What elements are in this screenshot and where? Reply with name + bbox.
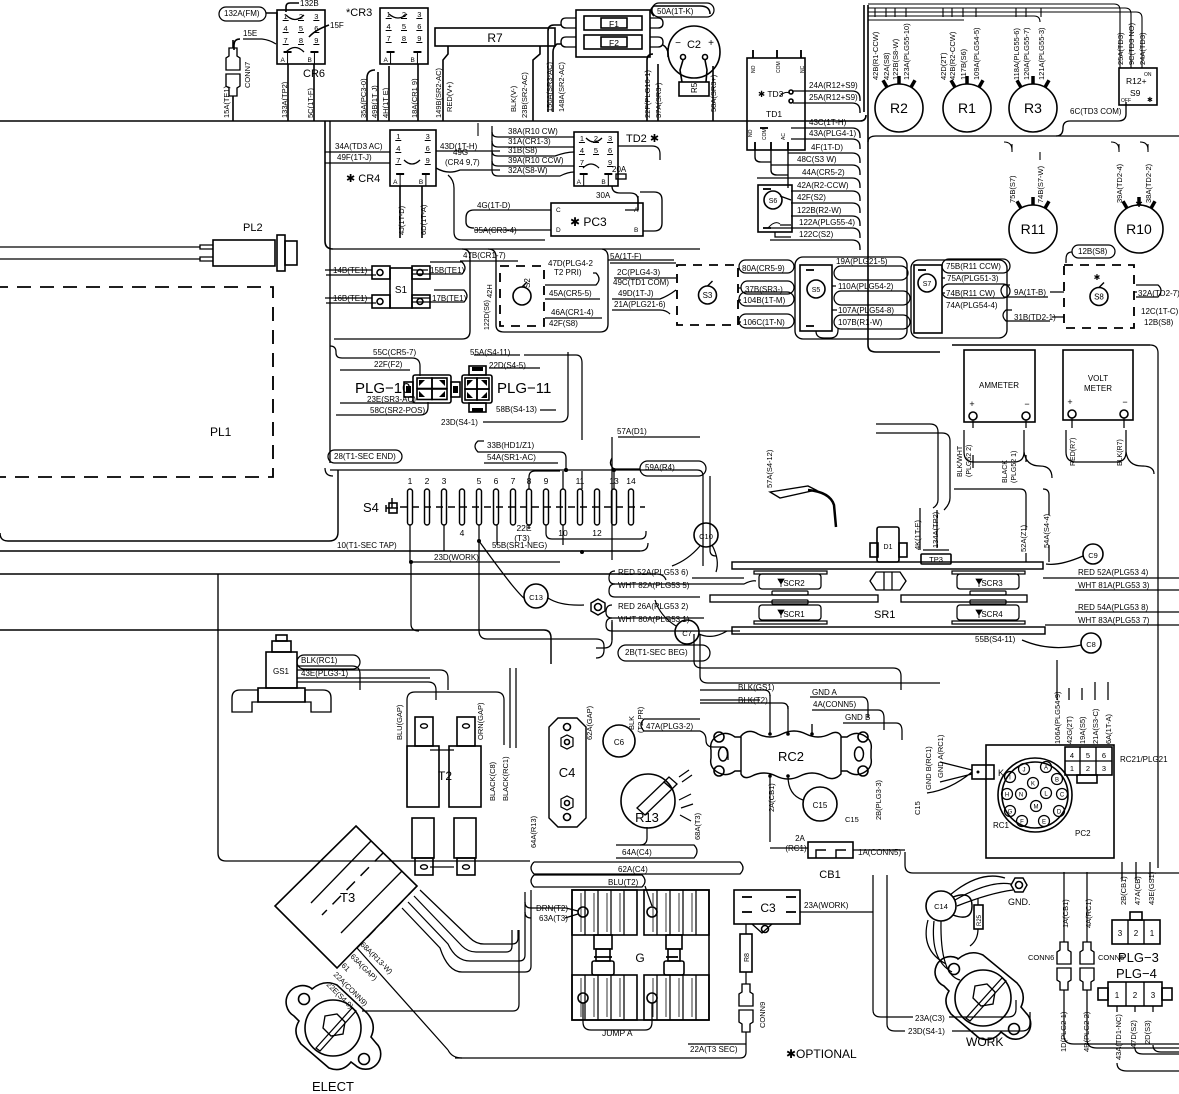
svg-text:S3: S3 [703,291,713,300]
svg-text:BLK: BLK [627,716,636,730]
capsule S3 left labels [610,262,676,264]
svg-text:9: 9 [417,34,421,43]
svg-text:R10: R10 [1126,221,1152,237]
svg-text:42B(R1-CCW): 42B(R1-CCW) [871,31,880,80]
wires meter leads [973,420,1026,468]
svg-text:+: + [969,399,974,409]
relay CR6 contact arcs [286,15,304,20]
svg-text:✱: ✱ [1094,273,1101,282]
svg-text:NO: NO [748,129,754,137]
T2 bundle outline [407,692,504,790]
wire C7 leads [699,631,727,636]
svg-text:5: 5 [402,22,406,31]
wire CR6 B to bus [313,64,315,121]
svg-text:49G: 49G [453,148,468,157]
svg-text:R2: R2 [890,100,908,116]
wires S7 [942,277,945,279]
wires above PLG-3 [1121,862,1123,880]
svg-text:2C(PLG4-3): 2C(PLG4-3) [617,268,660,277]
wire PLG region outline [325,455,333,463]
wire 55A to S4 [524,355,582,440]
svg-text:8: 8 [402,34,406,43]
svg-text:G: G [635,951,644,965]
svg-text:4: 4 [396,144,400,153]
svg-text:4: 4 [580,146,584,155]
svg-text:6D(1T-A): 6D(1T-A) [419,204,428,235]
transformer T2 [415,717,433,746]
svg-text:55A(S4-11): 55A(S4-11) [470,348,511,357]
wire right edge trunk [1157,353,1159,868]
relay TD2 contact arcs [586,138,602,142]
svg-text:R8: R8 [744,953,751,962]
svg-text:H: H [1005,793,1009,799]
svg-text:133A(TP2): 133A(TP2) [280,81,289,118]
svg-text:15A(TE1): 15A(TE1) [222,85,231,118]
svg-text:42G(2T): 42G(2T) [1065,716,1074,744]
wires T3 to bundle [408,892,525,961]
switch S1 [390,268,412,308]
wire 48C(S3 W) [771,165,860,175]
wire S2 region right border [488,249,608,332]
svg-text:PLG−3: PLG−3 [1118,950,1159,965]
svg-text:D: D [556,227,561,234]
S4 contact 1 [408,489,413,525]
resistor R25 [974,905,983,929]
svg-text:T2: T2 [438,769,452,783]
wire R12 to bus [1056,102,1126,136]
svg-text:21A(S3-C): 21A(S3-C) [1091,708,1100,744]
transformer T3 [275,826,417,968]
relay CR4 [390,130,436,186]
switch S2 [500,266,544,326]
svg-text:GS1: GS1 [273,667,290,676]
svg-text:123A(PLG55-10): 123A(PLG55-10) [902,23,911,80]
svg-text:20A: 20A [612,165,627,174]
svg-text:4G(1T-D): 4G(1T-D) [477,201,511,210]
svg-text:58C(SR2-POS): 58C(SR2-POS) [370,406,425,415]
wires S5 [832,285,836,287]
TD3 pins top [752,50,754,58]
svg-text:A: A [393,179,398,186]
capacitor C3 [734,890,800,924]
wires above rheostats [874,8,876,17]
svg-text:19A(PLG21-5): 19A(PLG21-5) [836,257,888,266]
svg-text:12C(1T-C): 12C(1T-C) [1141,307,1179,316]
wires SR1 left [609,571,756,584]
wire ELECT to bundle [362,930,519,1011]
test point TP3 [921,554,951,564]
svg-text:(CR4 9,7): (CR4 9,7) [445,158,480,167]
svg-text:42A(S8): 42A(S8) [882,52,891,80]
SCR4 [970,600,1006,604]
wire CR6 A to bus [287,64,289,121]
svg-text:4A(RC1): 4A(RC1) [1084,898,1093,928]
svg-text:5: 5 [1086,751,1090,760]
wire S4 region border [0,470,338,541]
timer TD2 [574,132,618,186]
svg-text:39A(TD2-4): 39A(TD2-4) [1115,163,1124,203]
wire 44A(CR5-2) [757,178,860,188]
wires RC2 bottom [769,776,771,842]
svg-text:C8: C8 [1086,640,1096,649]
svg-text:10(T1-SEC TAP): 10(T1-SEC TAP) [337,541,397,550]
svg-text:RC1: RC1 [993,821,1010,830]
svg-text:SCR3: SCR3 [981,579,1003,588]
wires S2 right [545,273,599,285]
S4 contact 3 [442,489,447,525]
wire F right to C2 [663,45,668,57]
svg-text:3: 3 [426,132,430,141]
svg-text:−: − [675,38,681,49]
capacitor C2 [668,26,720,78]
wire 24A(R12+S9) [793,91,860,101]
svg-text:PLG−11: PLG−11 [497,380,551,397]
svg-text:ELECT: ELECT [312,1079,354,1094]
svg-text:57A(D1): 57A(D1) [617,427,647,436]
svg-text:C2: C2 [687,39,701,51]
svg-text:5C(1T-F): 5C(1T-F) [306,87,315,118]
wires above R11 [1011,144,1013,152]
svg-text:4: 4 [460,528,465,538]
wire TD2 staircase right [618,146,660,160]
svg-text:21A(PLG21-6): 21A(PLG21-6) [614,300,666,309]
wire 25A(R12+S9) [793,103,860,113]
svg-text:55B(S4-11): 55B(S4-11) [975,635,1016,644]
svg-text:BLK(GS1): BLK(GS1) [738,683,775,692]
wire bottom right region border [905,852,1179,873]
svg-text:1: 1 [396,132,400,141]
svg-text:+: + [708,38,714,49]
G center studs [594,935,612,949]
wires RC2 top [769,695,771,734]
svg-text:RC2: RC2 [778,749,804,764]
capsule 43E(PLG3-1) GS1 [297,670,448,690]
svg-text:15B(TE1): 15B(TE1) [430,266,465,275]
wires C14 to GND [950,876,1005,895]
wires S1 [325,269,372,271]
svg-text:−: − [1122,397,1127,407]
wires PLG-10 labels [330,346,420,376]
svg-text:42B(R2-CCW): 42B(R2-CCW) [948,31,957,80]
svg-text:32A(S8-W): 32A(S8-W) [508,166,548,175]
wire C10 leads [712,545,717,572]
svg-text:109A(PLG54-5): 109A(PLG54-5) [972,27,981,80]
terminal strip PLG-4 [1108,982,1162,1006]
wire 132A to CR6 pin1 [266,13,277,20]
svg-text:49F(1T-J): 49F(1T-J) [337,153,372,162]
wires S8 [1050,291,1064,293]
svg-text:122C(S2): 122C(S2) [799,230,834,239]
wire 22F/37A stubs [647,54,653,60]
svg-text:4H(1T E): 4H(1T E) [381,87,390,118]
capacitor C9 circle [1083,544,1103,564]
svg-text:S2: S2 [523,278,532,288]
svg-text:COM: COM [776,61,782,73]
svg-text:62A(GAP): 62A(GAP) [585,705,594,740]
wire C13 curve [479,541,524,598]
svg-text:134A(TP2): 134A(TP2) [931,511,940,548]
wire CONN7 down to bus [232,96,234,121]
svg-text:5: 5 [299,24,303,33]
wire BLK(T2) row [700,703,788,709]
wires below PLG-4 [1116,1006,1118,1012]
rheostat R3 [1009,84,1057,132]
svg-text:SCR2: SCR2 [783,579,805,588]
wire 14B S1 [326,274,376,276]
svg-text:23A(C3): 23A(C3) [915,1014,945,1023]
TD3 contacts [789,90,793,94]
svg-text:A: A [384,57,389,64]
capacitor C15 [803,787,837,821]
svg-text:7: 7 [284,36,288,45]
svg-text:B: B [307,57,311,64]
capacitor C7 circle [675,620,699,644]
svg-text:RC21/PLG21: RC21/PLG21 [1120,755,1168,764]
wire 58A stub [712,66,714,121]
svg-text:C15: C15 [913,801,922,815]
svg-text:54A(S4-4): 54A(S4-4) [1042,513,1051,548]
wires GS1 labels [297,666,360,690]
svg-text:1: 1 [408,476,413,486]
wires SR1 right [1043,577,1179,579]
svg-text:1: 1 [1150,929,1155,938]
svg-text:D: D [1057,810,1062,816]
svg-text:37B(SR3-): 37B(SR3-) [745,285,783,294]
wires TP3 up [919,508,921,550]
rheostat R2 [875,84,923,132]
svg-text:6C(TD3 COM): 6C(TD3 COM) [1070,107,1122,116]
svg-text:57A(S4-12): 57A(S4-12) [765,449,774,488]
capsule 23A(WORK) line [802,900,868,908]
svg-text:42A(R2-CCW): 42A(R2-CCW) [797,181,849,190]
svg-text:6: 6 [608,146,612,155]
svg-text:132B: 132B [300,0,319,8]
terminal K [972,765,994,779]
capsule 132A(FM) [219,7,266,21]
meter VOLT METER [1063,350,1133,420]
svg-text:35A(PC3-0): 35A(PC3-0) [359,78,368,118]
junction dots [564,468,568,472]
svg-text:C9: C9 [1088,551,1098,560]
svg-text:106C(1T-N): 106C(1T-N) [743,318,785,327]
svg-text:4A(CONN5): 4A(CONN5) [813,700,856,709]
wire BLU to G terminal [645,886,652,906]
svg-text:METER: METER [1084,384,1112,393]
meter AMMETER [964,350,1035,422]
wire 4F(1T-D) [788,153,860,163]
S4 contact 8 [527,489,532,525]
svg-text:42F(S2): 42F(S2) [797,193,826,202]
rectifier SR1 mid bars [710,595,878,602]
svg-text:149B(SR2-AC): 149B(SR2-AC) [434,67,443,118]
wire CR4 right [436,150,500,152]
wire 54A row [475,452,484,463]
wire 23D(S4-1) row [431,411,440,423]
svg-text:C3: C3 [760,901,776,915]
wire trunk x325 [324,121,326,241]
capsule 59A(R4) [640,461,706,476]
wires S7 rows to R11 [1008,265,1012,267]
capacitor C13 [524,584,548,608]
wire 122A(PLG55-4) [770,228,860,238]
svg-text:64A(C4): 64A(C4) [622,848,652,857]
svg-text:2: 2 [425,476,430,486]
svg-text:✱ TD3: ✱ TD3 [758,89,784,99]
receptacle RC1/PC2 box [986,745,1114,858]
wire CR4 A/B down [399,186,401,238]
svg-text:C10: C10 [699,532,713,541]
relay CR3 contact arcs [389,14,407,18]
wires above RC1 [1056,660,1058,700]
svg-text:(PLG52 1): (PLG52 1) [1011,451,1018,483]
svg-text:31A(CR1-3): 31A(CR1-3) [508,137,551,146]
rheostat R11 [1009,205,1057,253]
capsule BLU(T2) [531,875,645,887]
svg-text:2B(CB1): 2B(CB1) [1119,876,1128,905]
svg-text:TP3: TP3 [929,555,943,564]
capacitor C6 [603,725,635,757]
capsule BLK(RC1) GS1 [297,655,360,669]
svg-text:104B(1T-M): 104B(1T-M) [743,296,786,305]
S4 tick stems [613,471,615,489]
svg-text:74B(S7-W): 74B(S7-W) [1036,165,1045,203]
gas solenoid GS1 [266,652,297,688]
svg-text:117B(S6): 117B(S6) [959,48,968,80]
svg-text:47A(CB): 47A(CB) [1133,876,1142,905]
svg-text:SR1: SR1 [874,609,895,621]
switch S7 [914,265,942,333]
wire 17B S1 capsule [412,290,467,302]
svg-text:122D(S6): 122D(S6) [484,300,491,330]
svg-text:WHT 83A(PLG53 7): WHT 83A(PLG53 7) [1078,616,1150,625]
wire S1 region top border [333,248,700,250]
wire 4G to PC3 [466,210,474,228]
rheostat R13 [621,774,675,828]
hex nut [591,599,605,615]
capsule 47A(PLG3-2) [641,719,728,760]
svg-text:BLACK: BLACK [1002,460,1009,483]
svg-text:PL1: PL1 [210,425,232,439]
receptacle RC2 [741,731,841,779]
svg-text:CONN9: CONN9 [758,1002,767,1028]
capacitor C14 [926,891,956,921]
svg-text:GND.: GND. [1008,897,1031,907]
svg-text:120A(PLG55-7): 120A(PLG55-7) [1022,27,1031,80]
svg-text:WHT 82A(PLG53 5): WHT 82A(PLG53 5) [618,581,690,590]
svg-text:39A(R10 CCW): 39A(R10 CCW) [508,156,564,165]
switch S5 region outline [795,257,907,339]
svg-text:7: 7 [387,34,391,43]
wire 35A to PC3 [474,229,551,231]
svg-text:C15: C15 [813,801,828,810]
wire TD2 B loop [612,186,638,210]
diode D1 stud [877,527,899,562]
svg-text:N: N [1019,793,1023,799]
svg-text:✱ PC3: ✱ PC3 [570,215,607,229]
svg-text:75B(R11 CCW): 75B(R11 CCW) [946,262,1001,271]
wire bus y507 left [325,468,333,476]
motor ELECT [286,983,381,1070]
wires PLG-11 labels [474,354,520,356]
svg-text:30A: 30A [596,191,611,200]
S4 contact 9 [544,489,549,525]
svg-text:1A(CB1): 1A(CB1) [1061,899,1070,928]
svg-text:C13: C13 [529,593,543,602]
svg-text:F1: F1 [609,19,619,29]
svg-text:42H: 42H [485,284,494,298]
terminal strip RC21 [1065,747,1112,775]
wire C3 to work [800,911,873,913]
svg-text:2A(CB1): 2A(CB1) [767,783,776,812]
dashed box PL1 [0,287,273,477]
svg-text:1: 1 [1115,991,1120,1000]
svg-text:RED 54A(PLG53 8): RED 54A(PLG53 8) [1078,603,1149,612]
svg-text:33B(HD1/Z1): 33B(HD1/Z1) [487,441,534,450]
svg-text:12: 12 [592,528,602,538]
svg-text:62A(C4): 62A(C4) [618,865,648,874]
svg-text:S5: S5 [812,287,821,294]
wire left border x218 [217,574,219,853]
relay CR4 contact arcs [404,160,420,164]
svg-text:SCR1: SCR1 [783,610,805,619]
svg-text:RED 52A(PLG53 4): RED 52A(PLG53 4) [1078,568,1149,577]
svg-text:9A(1T-B): 9A(1T-B) [1014,288,1046,297]
switch S8 [1064,265,1134,328]
svg-text:5: 5 [477,476,482,486]
svg-text:74B(R11 CW): 74B(R11 CW) [946,289,996,298]
svg-text:122B(S8-W): 122B(S8-W) [891,38,900,80]
wires R11 R10 tops to bus [1004,142,1012,150]
wire 15E to pin7 [234,39,240,50]
rectifier SR1 bottom bar [732,627,1045,634]
svg-text:7: 7 [580,158,584,167]
svg-text:BLK(V-): BLK(V-) [509,85,518,112]
wire 33B row [475,441,566,470]
svg-text:A: A [281,57,286,64]
svg-text:✱: ✱ [1135,199,1143,209]
wire PC3 A up [625,196,638,210]
svg-text:R25: R25 [977,914,983,926]
svg-text:3: 3 [442,476,447,486]
connector CONN9 [739,984,753,1006]
svg-text:25A(R12+S9): 25A(R12+S9) [809,93,858,102]
svg-text:CONN7: CONN7 [243,62,252,88]
terminal strip PLG-3 [1112,920,1160,944]
svg-text:TD2 ✱: TD2 ✱ [626,133,659,145]
SCR2 [754,571,827,574]
wire C8 lead [1022,640,1081,648]
svg-text:BLK(RC1): BLK(RC1) [301,656,338,665]
wire 57A vertical [611,437,613,560]
svg-text:47D(PLG4-2: 47D(PLG4-2 [548,259,593,268]
SCR1 [772,600,808,604]
svg-text:GND A(RC1): GND A(RC1) [936,734,945,778]
svg-text:BLU(GAP): BLU(GAP) [395,704,404,740]
wire BLK(GS1) row [700,690,770,696]
svg-text:✱: ✱ [1147,96,1153,104]
svg-text:121A(PLG55-3): 121A(PLG55-3) [1037,27,1046,80]
svg-text:GND B(RC1): GND B(RC1) [924,746,933,790]
svg-text:F: F [1020,820,1024,826]
wires GND to K [811,724,813,734]
resistor R7 [435,28,555,46]
svg-text:ORN(GAP): ORN(GAP) [476,702,485,740]
wire 42A(R2-CCW) [791,191,860,201]
svg-text:F2: F2 [609,38,619,48]
TD1 pins bottom [754,142,756,150]
switch S7 region outline [911,260,1007,338]
wires TD2 left bundle [491,126,493,170]
